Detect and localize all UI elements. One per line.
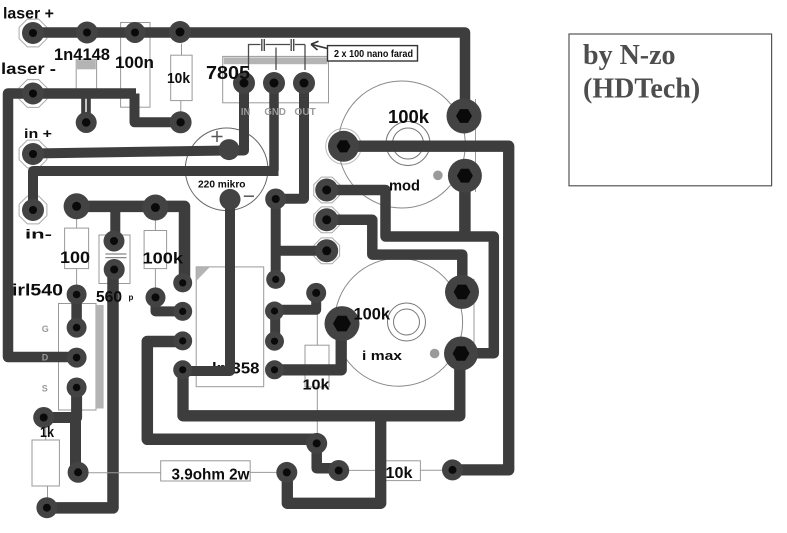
svg-text:100n: 100n xyxy=(115,53,154,72)
svg-text:10k: 10k xyxy=(386,465,413,482)
svg-text:laser -: laser - xyxy=(1,61,56,78)
svg-text:2 x 100 nano farad: 2 x 100 nano farad xyxy=(334,49,413,60)
svg-text:3.9ohm 2w: 3.9ohm 2w xyxy=(172,467,251,484)
svg-text:OUT: OUT xyxy=(294,107,316,118)
svg-text:IN: IN xyxy=(241,107,250,118)
svg-text:100k: 100k xyxy=(143,251,184,268)
svg-text:10k: 10k xyxy=(303,377,331,394)
svg-text:10k: 10k xyxy=(167,70,191,87)
svg-text:in +: in + xyxy=(24,126,52,141)
svg-text:GND: GND xyxy=(264,107,286,118)
svg-text:G: G xyxy=(42,324,49,334)
svg-text:100k: 100k xyxy=(388,106,430,127)
svg-text:7805: 7805 xyxy=(206,63,250,83)
svg-text:i max: i max xyxy=(362,349,402,363)
svg-text:p: p xyxy=(129,293,134,302)
svg-text:100k: 100k xyxy=(354,305,391,324)
svg-text:560: 560 xyxy=(96,289,122,306)
svg-text:D: D xyxy=(42,353,49,363)
svg-text:by N-zo: by N-zo xyxy=(583,40,676,71)
svg-text:mod: mod xyxy=(389,178,420,195)
svg-text:laser +: laser + xyxy=(3,6,54,23)
svg-text:220 mikro: 220 mikro xyxy=(198,180,246,191)
svg-text:in-: in- xyxy=(25,227,52,242)
svg-text:100: 100 xyxy=(60,248,90,267)
svg-text:1k: 1k xyxy=(40,424,55,441)
svg-text:1n4148: 1n4148 xyxy=(54,45,110,64)
svg-text:(HDTech): (HDTech) xyxy=(583,74,700,105)
svg-text:irl540: irl540 xyxy=(12,281,63,300)
svg-text:S: S xyxy=(42,384,48,394)
